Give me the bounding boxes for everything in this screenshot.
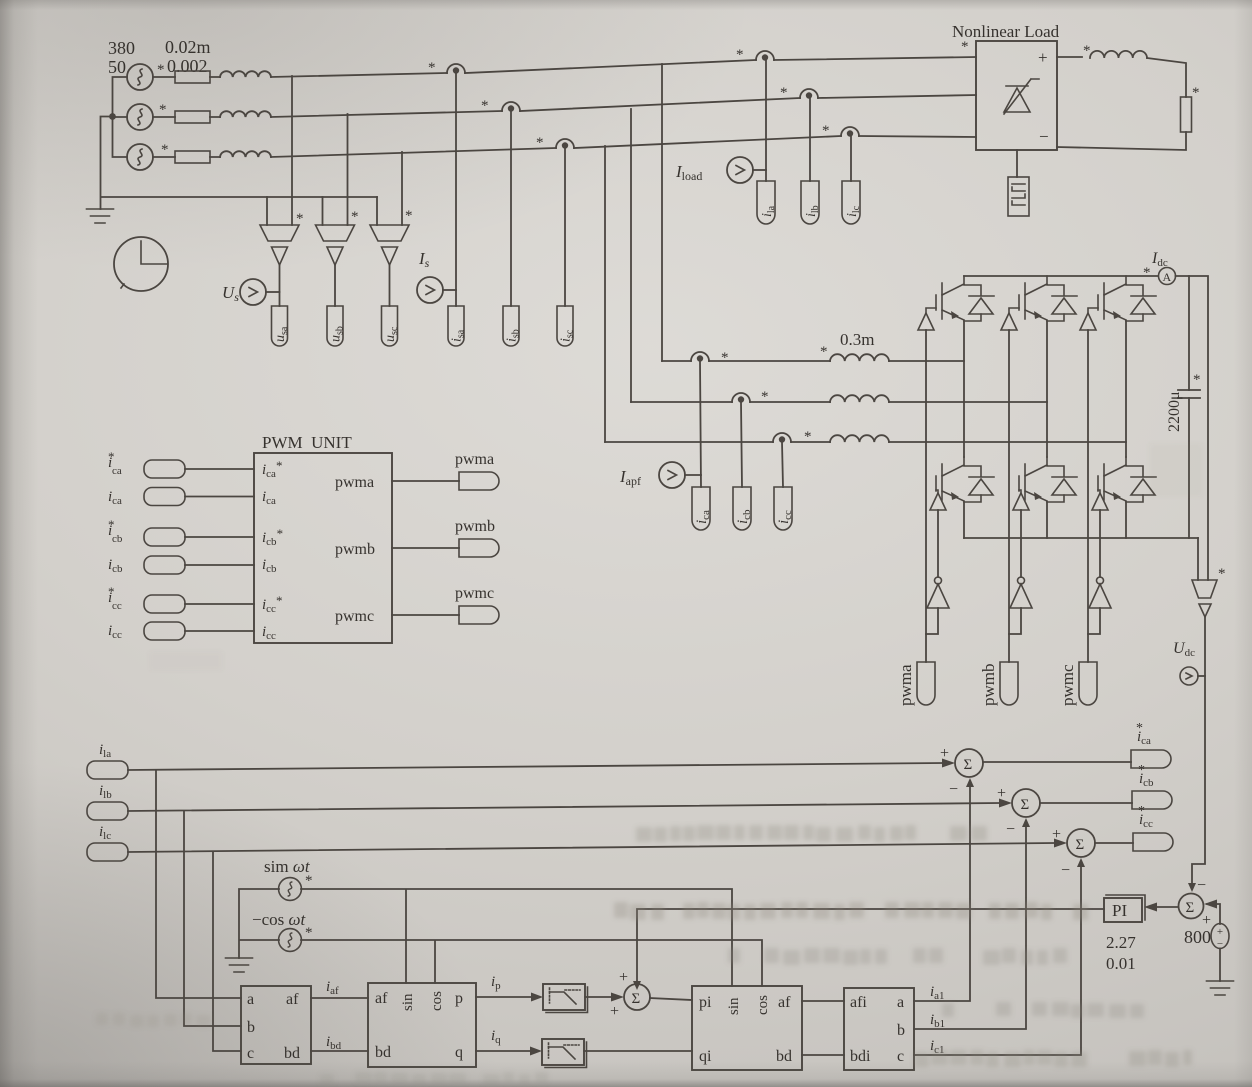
wire PI feedback [637,909,1104,982]
summer sum1 [624,984,650,1010]
svg-text:cos: cos [755,995,771,1015]
current bump i_cb [732,393,750,403]
current bump i_sc [556,139,574,149]
svg-text:Us: Us [222,283,239,304]
port i_ca [692,487,710,530]
transistor Q2 lower c [1098,457,1156,502]
svg-text:−: − [949,781,958,798]
svg-text:0.02m: 0.02m [165,37,211,57]
wire i_ca port drop [700,361,701,487]
svg-text:*: * [428,60,436,76]
wire apf drop phase c [604,146,606,442]
svg-text:*: * [108,449,115,464]
svg-text:qi: qi [699,1048,712,1065]
svg-text:sim ωt: sim ωt [264,857,311,876]
svg-text:pwma: pwma [896,664,915,706]
svg-text:*: * [721,350,729,366]
svg-text:PI: PI [1112,901,1127,920]
ammeter I_dc [1159,268,1176,285]
ammeter Is [417,277,443,303]
AC source Vc [127,144,153,170]
NOT gate b [1010,577,1032,608]
wire i_bd [311,1050,368,1052]
svg-text:ca: ca [112,465,122,477]
svg-text:pwmc: pwmc [1058,664,1077,706]
svg-text:*: * [1192,85,1200,101]
svg-text:*: * [405,208,413,224]
svg-text:bd: bd [375,1044,391,1061]
wire i_cc port drop [782,442,783,487]
svg-text:bdi: bdi [850,1048,871,1065]
wire i_sb drop [510,111,512,306]
wire i_c1 riser [914,866,1081,1055]
svg-text:*: * [108,584,115,599]
voltage sensor u_sc [370,225,409,265]
wire apf branch b [631,401,1047,403]
svg-text:+: + [610,1003,619,1020]
summer sum b [1012,789,1040,817]
block PWM UNIT [254,453,392,643]
wire branch b down [184,811,241,1026]
wire i_ca* [185,468,254,470]
svg-text:ica*: ica* [262,458,282,480]
svg-text:*: * [1193,372,1201,388]
svg-text:+: + [1052,826,1061,843]
wire bd link [802,1054,844,1056]
port i_cc [774,487,792,530]
svg-text:ip: ip [491,974,501,992]
svg-text:+: + [1038,48,1048,67]
wire apf drop phase b [630,109,632,402]
svg-text:icb: icb [262,557,277,575]
svg-text:Idc: Idc [1151,250,1168,269]
wire source left rail [113,77,128,157]
summer sum c [1067,829,1095,857]
gate driver triangle Q3 [1001,313,1017,330]
svg-text:icb: icb [108,557,123,575]
NOT gate a [927,577,949,608]
svg-text:p: p [455,990,463,1007]
port i_cc* [1133,833,1173,851]
current bump i_sa [447,64,465,74]
voltmeter I_apf [659,462,685,488]
gate driver triangle Q6 [1013,493,1029,510]
svg-text:af: af [778,994,791,1011]
wire i_lc port drop [850,136,852,181]
svg-text:pi: pi [699,994,712,1011]
svg-text:Iapf: Iapf [619,467,641,488]
port i_ca* in [144,460,185,478]
wire I_apf stub [685,474,701,476]
svg-text:*: * [736,47,744,63]
port i_la in [87,761,128,779]
wire sum1 to pi [650,998,692,1000]
wire 800 to sum dc [1207,904,1220,924]
svg-text:ila: ila [99,742,111,760]
capacitor 2200u [1178,390,1200,398]
ground sincos [226,958,253,972]
svg-text:afi: afi [850,994,867,1011]
svg-text:Is: Is [418,249,430,270]
port i_sb [503,306,519,346]
ground G1 [87,209,114,223]
wire i_b1 riser [914,826,1026,1029]
wire i_cc [185,630,254,632]
svg-text:2200μ: 2200μ [1166,391,1183,432]
wire pwma gate line [925,330,927,662]
port u_sa [272,306,288,346]
svg-text:ilc: ilc [99,824,111,842]
wire U_dc feedback down [1192,617,1205,884]
transistor Q4 lower a [936,457,994,502]
svg-text:+: + [1217,926,1223,938]
port pwmb out [459,539,499,557]
inductor apf c [830,435,889,442]
wire sin out [301,889,732,986]
inductor apf a [830,354,889,361]
wire to load resistor [1147,58,1186,97]
svg-text:*: * [108,517,115,532]
svg-text:ilb: ilb [804,205,821,217]
port i_sa [448,306,464,346]
svg-text:*: * [159,102,167,118]
transistor Q6 lower b [1019,457,1077,502]
transistor Q1 upper a [936,276,994,321]
svg-text:ica: ica [262,489,276,507]
svg-text:+: + [997,785,1006,802]
svg-text:*: * [1218,566,1226,582]
wire i_la to sum a [128,763,943,770]
gate driver triangle Q5 [1080,313,1096,330]
svg-text:Σ: Σ [1021,797,1030,813]
port i_cc in [144,622,185,640]
svg-text:usa: usa [273,326,290,342]
filter LPF q [542,1039,584,1065]
wire dc minus to sensor [1197,538,1199,580]
current bump i_la [756,51,774,61]
svg-text:cos: cos [429,991,445,1011]
wire sensor a to port [279,265,281,306]
wire phase b bus [271,95,976,117]
wire phase c drop to sensor [401,152,403,225]
wire i_a1 riser [914,786,970,1001]
port pwmc in [1079,662,1097,705]
svg-text:usc: usc [383,326,400,342]
wire i_lb to sum b [128,803,999,811]
wire Us stub [266,291,280,293]
resistor load [1181,97,1192,132]
wire branch c down [213,852,241,1051]
inductor apf b [830,395,889,402]
svg-text:*: * [161,142,169,158]
svg-text:−: − [1039,127,1049,146]
wire apf drop phase a [661,64,663,361]
wire I_load stub [753,169,766,171]
wire i_sc drop [564,148,566,306]
voltmeter Us [240,279,266,305]
port i_lc [842,181,860,224]
wire i_cb port drop [741,402,742,487]
port pwmb in [1000,662,1018,705]
AC source sin [279,878,302,901]
svg-text:2.27: 2.27 [1106,933,1136,952]
port i_cb [733,487,751,530]
svg-text:ica: ica [694,510,712,524]
svg-text:*: * [1138,804,1145,819]
svg-text:800: 800 [1184,927,1211,947]
svg-text:af: af [375,990,388,1007]
wire gate c NOT branch [1099,510,1101,577]
current bump i_ca [691,352,709,362]
inductor La [220,71,271,77]
svg-text:q: q [455,1044,463,1061]
svg-text:−cos ωt: −cos ωt [252,910,307,929]
wire sum dc to PI [1157,906,1178,908]
wire apf branch c [605,441,1126,443]
wire pwmc out [392,614,459,616]
transistor Q5 upper c [1098,276,1156,321]
svg-text:0.01: 0.01 [1106,954,1136,973]
wire sensor b to port [334,265,336,306]
svg-text:−: − [1061,862,1070,879]
wire gate a NOT branch [937,510,939,577]
port pwma in [917,662,935,705]
ground 800 [1207,981,1234,995]
svg-text:icc: icc [108,623,122,641]
svg-text:*: * [305,873,313,889]
gate driver triangle Q1 [918,313,934,330]
wire sum b out [1040,802,1132,804]
svg-text:ilb: ilb [99,783,112,801]
wire cos out [301,940,762,986]
svg-text:*: * [1143,265,1151,281]
inductor load [1090,51,1147,58]
voltmeter I_load [727,157,753,183]
voltage sensor u_sb [316,225,355,265]
svg-text:−: − [1197,877,1206,894]
port u_sb [327,306,343,346]
node neutral junction [109,113,116,120]
svg-text:icb*: icb* [262,526,283,548]
gate driver triangle Q4 [930,493,946,510]
svg-text:*: * [820,344,828,360]
clock block [114,237,168,291]
current bump i_cc [773,433,791,443]
wire leg c midpoint [1125,321,1127,457]
svg-text:b: b [897,1022,905,1039]
port i_la [757,181,775,224]
svg-text:pwmb: pwmb [979,664,998,707]
resistor Rb [153,116,220,118]
svg-text:A: A [1163,270,1172,284]
svg-text:+: + [940,745,949,762]
svg-text:isb: isb [505,329,522,342]
svg-text:af: af [286,991,299,1008]
wire lower emitters to dc minus rail [964,502,1126,538]
wire ammeter to right bus [1176,276,1209,580]
svg-text:*: * [351,209,359,225]
svg-text:a: a [247,991,254,1008]
svg-text:cb: cb [112,533,123,545]
svg-text:sin: sin [726,997,742,1015]
AC source Vb [127,104,153,130]
svg-text:ica: ica [108,489,122,507]
wire leg a midpoint [963,321,965,457]
svg-text:icc: icc [776,510,794,524]
wire capacitor branch [1188,276,1190,538]
wire dc plus rail [964,275,1158,277]
svg-text:*: * [1136,721,1143,736]
filter LPF p [543,984,585,1010]
wire i_cc* [185,603,254,605]
svg-text:*: * [305,925,313,941]
wire U_dc stub [1198,675,1205,677]
svg-text:*: * [296,211,304,227]
wire i_la port drop [765,60,767,181]
wire pwmb out [392,547,459,549]
wire Is stub [443,289,456,291]
wire neutral to ground rail [101,117,378,210]
wire apf branch a [662,360,964,362]
inductor Lc [220,151,271,157]
wire phase a drop to sensor [291,76,293,225]
svg-text:c: c [247,1045,254,1062]
svg-text:Σ: Σ [964,757,973,773]
wire load dc minus [1057,132,1186,150]
svg-text:Iload: Iload [675,162,702,183]
svg-text:*: * [761,389,769,405]
wire dc minus rail [964,537,1198,539]
port i_lb [801,181,819,224]
svg-text:*: * [157,62,165,78]
svg-text:icb: icb [735,509,753,524]
svg-text:icc: icc [262,624,276,642]
svg-text:*: * [536,135,544,151]
port i_cb* [1132,791,1172,809]
wire leg b midpoint [1046,321,1048,457]
current bump i_sb [502,102,520,112]
svg-text:pwmb: pwmb [455,518,495,535]
wire filter q to qi [584,1050,692,1052]
voltmeter U_dc [1180,667,1198,685]
wire i_af [311,997,368,999]
wire pwmb gate line [1008,330,1010,662]
svg-text:pwmb: pwmb [335,541,375,558]
svg-text:pwma: pwma [455,451,494,468]
svg-text:bd: bd [284,1045,300,1062]
svg-text:*: * [780,85,788,101]
voltage sensor u_sa [260,225,299,265]
port i_cb in [144,556,185,574]
wire sum a out [983,761,1131,763]
wire i_cb [185,564,254,566]
resistor Rc [153,156,220,158]
block pq inverse [692,986,802,1070]
wire sum c out [1095,842,1133,844]
svg-text:c: c [897,1048,904,1065]
svg-text:Udc: Udc [1173,640,1195,659]
port i_lb in [87,802,128,820]
svg-text:isa: isa [450,329,467,342]
svg-text:50: 50 [108,57,126,77]
svg-text:a: a [897,994,904,1011]
wire i_lb port drop [809,98,811,181]
svg-text:+: + [619,969,628,986]
current bump i_lc [841,127,859,137]
wire branch a down [156,770,241,998]
port i_cb* in [144,528,185,546]
voltage sensor U_dc trapezoid [1192,580,1217,598]
wire phase a bus [271,57,976,77]
gate driver triangle Q2 [1092,493,1108,510]
svg-text:*: * [822,123,830,139]
block series RLC branch [1008,177,1029,216]
svg-text:PWM UNIT: PWM UNIT [262,433,352,452]
svg-text:380: 380 [108,38,135,58]
svg-text:*: * [961,39,969,55]
port i_ca* [1131,750,1171,768]
wire pwma out [392,480,459,482]
svg-text:isc: isc [559,329,576,342]
inductor Lb [220,111,271,117]
wire pwmc gate line [1087,330,1089,662]
svg-text:Σ: Σ [632,991,641,1007]
port pwma out [459,472,499,490]
wire sincos left rail [239,889,279,958]
svg-text:0.3m: 0.3m [840,330,874,349]
svg-text:b: b [247,1019,255,1036]
block pq calculation [368,983,476,1067]
svg-text:usb: usb [329,326,346,342]
summer sum dc [1179,894,1204,919]
NOT gate c [1089,577,1111,608]
svg-text:ila: ila [760,205,777,217]
block alphabeta to abc [844,988,914,1070]
wire rectifier to rlc branch [1016,150,1018,177]
wire ground rail stubs to sensors [267,197,377,225]
svg-text:cc: cc [112,600,122,612]
wire gate b NOT branch [1020,510,1022,577]
svg-text:pwmc: pwmc [455,585,494,602]
wire 800 to ground [1219,949,1221,982]
wire phase b drop to sensor [347,114,349,225]
summer sum a [955,749,983,777]
wire i_sa drop [455,73,457,306]
svg-text:iaf: iaf [326,979,339,997]
wire i_ca [185,496,254,498]
svg-text:*: * [481,98,489,114]
port i_sc [557,306,573,346]
wire filter p to sum1 [585,996,612,998]
port i_ca in [144,488,185,506]
wire af link [802,1000,844,1002]
resistor Ra [153,76,220,78]
svg-text:*: * [804,429,812,445]
svg-text:Σ: Σ [1076,837,1085,853]
block nonlinear rectifier [976,41,1057,150]
wire i_q [476,1050,530,1052]
wire i_lc to sum c [128,843,1054,852]
svg-text:Σ: Σ [1186,900,1195,916]
svg-text:pwmc: pwmc [335,608,374,625]
svg-text:*: * [1138,763,1145,778]
wire sensor c to port [389,265,391,306]
wire i_cb* [185,536,254,538]
port i_lc in [87,843,128,861]
thyristor symbol [1004,79,1039,114]
port u_sc [382,306,398,346]
svg-text:0.002: 0.002 [167,56,208,76]
